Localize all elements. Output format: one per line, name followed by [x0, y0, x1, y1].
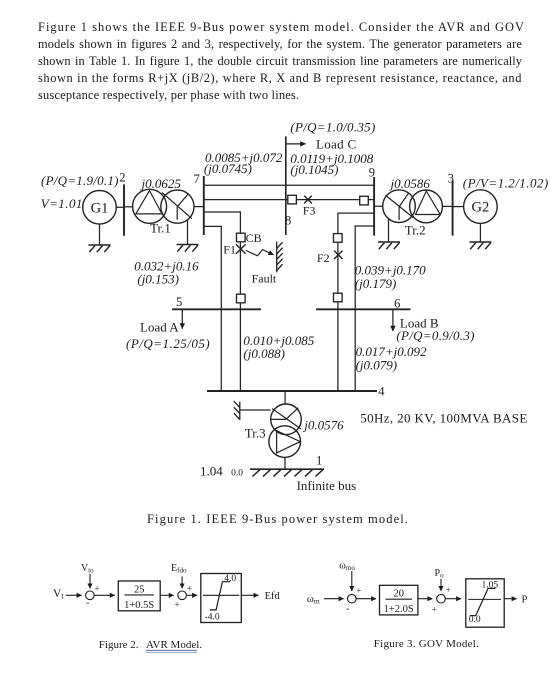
svg-text:Load B: Load B	[400, 315, 439, 330]
svg-text:4: 4	[378, 384, 385, 398]
svg-text:V=1.01: V=1.01	[41, 196, 83, 211]
svg-text:Fault: Fault	[252, 271, 277, 285]
svg-text:G1: G1	[91, 200, 109, 216]
svg-text:AVR Model.: AVR Model.	[146, 639, 202, 651]
svg-text:0.0: 0.0	[231, 469, 243, 479]
svg-text:7: 7	[194, 172, 200, 186]
svg-text:-: -	[346, 604, 350, 615]
svg-text:F3: F3	[303, 204, 316, 218]
svg-text:25: 25	[134, 584, 145, 595]
svg-text:8: 8	[285, 213, 291, 227]
svg-text:(j0.0745): (j0.0745)	[204, 161, 252, 176]
svg-text:6: 6	[394, 297, 400, 311]
svg-text:1: 1	[316, 453, 322, 467]
svg-text:Figure 2.: Figure 2.	[99, 639, 139, 651]
svg-text:Load A: Load A	[140, 320, 179, 335]
svg-text:20: 20	[393, 589, 404, 600]
svg-text:1.05: 1.05	[482, 581, 499, 591]
svg-text:Efd: Efd	[265, 591, 281, 602]
svg-text:Po: Po	[435, 568, 445, 580]
svg-text:Figure 1. IEEE 9-Bus power sy: Figure 1. IEEE 9-Bus power system model.	[147, 512, 409, 526]
svg-text:+: +	[175, 600, 180, 610]
svg-text:+: +	[446, 585, 451, 595]
svg-text:ωm: ωm	[307, 594, 320, 606]
svg-text:+: +	[432, 605, 437, 615]
svg-text:F1: F1	[223, 243, 236, 257]
svg-text:(j0.079): (j0.079)	[356, 357, 398, 372]
svg-text:F2: F2	[317, 251, 330, 265]
svg-text:P: P	[522, 594, 528, 605]
svg-text:Vt: Vt	[53, 588, 64, 601]
svg-text:Tr.1: Tr.1	[150, 220, 171, 235]
svg-text:1+2.0S: 1+2.0S	[384, 604, 414, 615]
svg-text:(P/Q=1.25/05): (P/Q=1.25/05)	[126, 336, 210, 351]
svg-text:1.04: 1.04	[200, 464, 223, 479]
svg-text:5: 5	[176, 295, 182, 309]
svg-text:j0.0576: j0.0576	[302, 418, 344, 433]
svg-text:50Hz, 20 KV, 100MVA BASE: 50Hz, 20 KV, 100MVA BASE	[360, 410, 528, 425]
svg-text:(P/Q=1.9/0.1): (P/Q=1.9/0.1)	[41, 173, 119, 188]
svg-text:(P/Q=1.0/0.35): (P/Q=1.0/0.35)	[290, 120, 375, 135]
svg-text:(j0.153): (j0.153)	[137, 271, 179, 286]
svg-text:-: -	[86, 597, 90, 608]
svg-text:CB: CB	[246, 231, 262, 245]
svg-text:Figure 3. GOV Model.: Figure 3. GOV Model.	[374, 638, 479, 650]
svg-text:0.0: 0.0	[469, 615, 481, 625]
svg-text:(j0.179): (j0.179)	[355, 276, 397, 291]
svg-text:Tr.3: Tr.3	[245, 426, 266, 441]
svg-text:(j0.1045): (j0.1045)	[290, 162, 338, 177]
svg-text:Efdo: Efdo	[171, 563, 187, 575]
svg-text:4.0: 4.0	[224, 574, 236, 584]
svg-text:1+0.5S: 1+0.5S	[124, 600, 154, 611]
svg-text:+: +	[95, 584, 100, 594]
svg-text:(j0.088): (j0.088)	[243, 346, 285, 361]
svg-text:2: 2	[119, 171, 125, 185]
svg-text:+: +	[356, 586, 361, 596]
svg-text:-4.0: -4.0	[205, 613, 220, 623]
svg-text:Vto: Vto	[81, 563, 94, 575]
svg-text:+: +	[187, 584, 192, 594]
svg-text:Infinite bus: Infinite bus	[297, 478, 357, 493]
svg-text:Load C: Load C	[316, 136, 356, 151]
svg-text:9: 9	[369, 166, 375, 180]
svg-text:ωmo: ωmo	[339, 561, 355, 573]
svg-text:j0.0586: j0.0586	[389, 176, 431, 191]
svg-text:Tr.2: Tr.2	[405, 222, 426, 237]
svg-text:j0.0625: j0.0625	[140, 176, 182, 191]
svg-text:G2: G2	[472, 200, 490, 216]
svg-text:3: 3	[448, 171, 454, 185]
svg-text:(P/V=1.2/1.02): (P/V=1.2/1.02)	[463, 176, 549, 191]
